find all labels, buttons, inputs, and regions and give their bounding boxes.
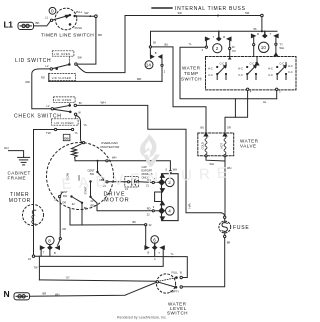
timer line switch cam number 0 (49, 7, 56, 14)
svg-text:BR: BR (43, 291, 47, 295)
watermark flame (140, 134, 160, 167)
check switch LID OPEN box (54, 97, 76, 104)
drive motor housing (47, 143, 114, 210)
svg-text:OR: OR (62, 200, 66, 204)
connector P1 (L1 input plug) (18, 22, 34, 29)
svg-text:B: B (54, 251, 56, 255)
svg-text:PUSH: PUSH (75, 26, 82, 30)
svg-text:C-C: C-C (288, 70, 293, 74)
wire YL from line1 to water level switch full (172, 257, 187, 278)
motor internal wire to WH terminal (75, 160, 108, 162)
svg-text:COLD: COLD (200, 142, 204, 149)
svg-text:YL: YL (84, 123, 88, 127)
label TIMER MOTOR (9, 192, 31, 204)
water temp switch internal contacts (208, 57, 292, 80)
svg-text:2: 2 (216, 46, 219, 51)
ground cabinet frame (18, 157, 30, 165)
svg-text:SW: SW (78, 56, 83, 60)
wire YL from check switch W to drive motor overload (76, 116, 88, 143)
bottom buss line 2 TW (34, 265, 164, 269)
wire RD from lid switch L2 down to check switch (26, 69, 52, 109)
svg-text:FULL: FULL (172, 271, 179, 275)
svg-text:LID CLOSED: LID CLOSED (52, 76, 71, 80)
svg-text:BR: BR (227, 241, 231, 245)
wire from temp switch terminal 4 to water valve hot (225, 90, 248, 133)
svg-text:WH: WH (112, 155, 116, 159)
wire from buss terminal down to timer buss 2 (261, 17, 263, 33)
timer motor (23, 205, 44, 226)
label WATER LEVEL SWITCH (167, 301, 188, 315)
svg-text:8: 8 (48, 238, 51, 243)
timer cam switch 8 (40, 236, 59, 256)
cam number 10 (259, 42, 269, 52)
cam number 2 (213, 44, 222, 53)
bottom buss line 3 GY (39, 256, 156, 281)
svg-text:WH: WH (280, 46, 284, 50)
svg-text:B: B (223, 35, 225, 39)
svg-text:BK: BK (98, 33, 102, 37)
svg-text:TW: TW (46, 131, 51, 135)
timer cam switch 10 (251, 31, 284, 56)
check switch contacts (47, 101, 83, 116)
svg-text:LID CLOSED: LID CLOSED (54, 121, 73, 125)
svg-text:LID OPEN: LID OPEN (55, 98, 72, 102)
svg-text:VALVE: VALVE (240, 144, 257, 149)
label DRIVE MOTOR (104, 191, 130, 203)
wire RD 22 from motor to timer block (91, 198, 159, 217)
timer line switch (45, 8, 83, 30)
timer block with cams 2 and 4 (155, 174, 179, 221)
svg-text:MOTOR: MOTOR (104, 198, 130, 204)
svg-text:DRIVE: DRIVE (104, 191, 126, 197)
wire RD from lid closed contact to cam 14 contact 2 (49, 73, 162, 81)
water valve box (198, 133, 234, 156)
wire BK 32 bottom from motor to cam 6 (70, 220, 152, 227)
legend INTERNAL TIMER BUSS (152, 6, 246, 12)
svg-text:TY: TY (280, 42, 284, 46)
motor centrifugal switch upper (88, 160, 107, 182)
wire TW/timer motor vertical (34, 128, 79, 256)
bottom buss line 1 YL (28, 252, 174, 261)
svg-text:INTERNAL TIMER BUSS: INTERNAL TIMER BUSS (175, 6, 246, 12)
svg-text:SWITCH: SWITCH (181, 76, 202, 81)
svg-text:C-C: C-C (220, 61, 225, 65)
water temp switch box (206, 57, 297, 90)
temp switch bottom terminals (246, 88, 281, 93)
svg-text:L1: L1 (4, 20, 14, 30)
svg-text:PU: PU (232, 49, 236, 53)
svg-text:PROTECTOR: PROTECTOR (101, 145, 121, 149)
svg-text:BK: BK (133, 220, 137, 224)
svg-text:GY: GY (66, 276, 70, 280)
svg-text:CENT: CENT (88, 168, 95, 172)
svg-text:RD: RD (41, 76, 45, 80)
wire WH from check switch to fuse (77, 100, 225, 217)
terminal SW on internal timer buss (245, 11, 263, 17)
wire YL from cam 2 contact 3 down and over (180, 42, 277, 104)
internal timer buss 2 (151, 31, 278, 46)
svg-text:RD: RD (91, 203, 95, 207)
svg-text:LID OPEN: LID OPEN (54, 52, 71, 56)
svg-text:B: B (180, 271, 182, 275)
svg-text:SW: SW (245, 11, 250, 15)
wire from lid switch SW to internal timer buss (217, 15, 219, 17)
fuse F1 (219, 216, 250, 237)
svg-text:BU: BU (201, 125, 205, 129)
motor terminal 31 and wire OR to cam 8 (54, 193, 66, 246)
svg-text:CAP: CAP (142, 165, 148, 169)
label CAP EXPORT MODELS ONLY (142, 165, 153, 180)
lid switch LID CLOSED box (41, 73, 75, 80)
svg-text:TIMER LINE SWITCH: TIMER LINE SWITCH (41, 33, 94, 39)
label WATER VALVE (240, 138, 259, 148)
svg-text:WH: WH (101, 100, 106, 104)
svg-text:EMPTY: EMPTY (170, 290, 179, 294)
svg-text:YL: YL (189, 42, 193, 46)
svg-text:SW: SW (84, 11, 89, 15)
timer cam switch 2 (205, 31, 236, 56)
svg-text:SW: SW (63, 194, 68, 198)
svg-text:B: B (257, 32, 259, 36)
wire WH from water valve to fuse (206, 157, 231, 216)
water level switch (156, 271, 182, 294)
svg-text:C-C: C-C (208, 73, 213, 77)
label WATER TEMP SWITCH (181, 66, 202, 82)
wire WH from motor to timer block (108, 155, 177, 173)
svg-text:H-C: H-C (208, 67, 213, 71)
svg-text:SWITCH: SWITCH (167, 311, 188, 316)
overload protector (72, 143, 83, 161)
timer cam switch 6 (145, 226, 164, 266)
timer cam switch 14 (149, 46, 165, 82)
svg-text:6: 6 (153, 237, 156, 242)
connector P2 (N input plug) (14, 293, 30, 300)
motor wire BK 32 to bottom buss (70, 202, 88, 225)
capacitor C1 (export models) (125, 177, 139, 192)
svg-text:RD: RD (147, 206, 151, 210)
wire BK from L1 plug to timer line switch (34, 20, 52, 26)
cam number 14 (145, 61, 153, 69)
svg-text:OR: OR (62, 227, 66, 231)
motor start winding (83, 180, 91, 198)
svg-text:GN: GN (4, 146, 9, 150)
svg-text:10: 10 (261, 45, 267, 50)
wire from capacitor to timer block terminal BA (139, 177, 159, 188)
wire BU from cam 14 to water valve cold (152, 42, 207, 132)
svg-text:LID SWITCH: LID SWITCH (15, 58, 51, 64)
svg-text:B: B (155, 51, 157, 55)
svg-text:14: 14 (146, 63, 152, 68)
connector code box DB (63, 134, 70, 140)
wire from temp switch terminal 3 (276, 90, 278, 99)
svg-text:MOTOR: MOTOR (9, 198, 31, 204)
block cam number 2 (166, 178, 175, 187)
svg-text:Rendered by LeadVenture, Inc.: Rendered by LeadVenture, Inc. (117, 316, 167, 320)
water valve cold solenoid (200, 133, 208, 157)
svg-text:0: 0 (51, 9, 54, 14)
svg-text:WH: WH (187, 204, 191, 209)
svg-text:4: 4 (168, 209, 171, 214)
wire WH from N plug to water level switch pivot (30, 282, 157, 296)
svg-text:WH: WH (55, 292, 59, 296)
svg-text:HOT: HOT (219, 143, 223, 149)
lid switch LID OPEN box (52, 51, 74, 63)
motor start terminal and capacitor wire (99, 178, 127, 188)
label OVERLOAD PROTECTOR (101, 141, 121, 149)
svg-text:H-C: H-C (288, 64, 293, 68)
svg-text:N: N (4, 289, 10, 299)
check switch LID CLOSED box (52, 116, 79, 126)
terminal SW (95, 15, 98, 18)
wire BR from fuse to water level switch empty (183, 238, 231, 287)
ground wire GN (4, 146, 24, 157)
lid switch contacts (46, 56, 83, 71)
svg-text:YL: YL (171, 252, 175, 256)
svg-text:BK: BK (84, 206, 88, 210)
svg-text:OR: OR (227, 125, 231, 129)
svg-text:FUSE: FUSE (233, 225, 250, 231)
svg-text:WATER: WATER (182, 66, 201, 71)
wire SW from timer line switch to terminal (73, 11, 94, 17)
wire BK from SW terminal down to lid switch SW (77, 18, 102, 65)
drive motor top terminal (83, 142, 85, 144)
svg-text:CHECK SWITCH: CHECK SWITCH (14, 113, 62, 119)
motor centrifugal switch lower (61, 190, 84, 204)
svg-text:WATER: WATER (240, 138, 259, 143)
motor windings SLOW RED (65, 172, 81, 180)
svg-text:BU: BU (165, 42, 169, 46)
water valve hot solenoid (219, 133, 227, 157)
svg-text:TEMP: TEMP (184, 71, 199, 76)
svg-text:PULL: PULL (76, 10, 83, 14)
svg-text:HL: HL (263, 100, 267, 104)
svg-text:FRAME: FRAME (8, 175, 27, 180)
svg-text:B: B (148, 250, 150, 254)
svg-text:BK: BK (36, 21, 40, 25)
label CABINET FRAME (8, 170, 31, 180)
block cam number 4 (166, 207, 175, 216)
svg-text:TW: TW (34, 265, 39, 269)
svg-text:YL: YL (75, 131, 79, 135)
